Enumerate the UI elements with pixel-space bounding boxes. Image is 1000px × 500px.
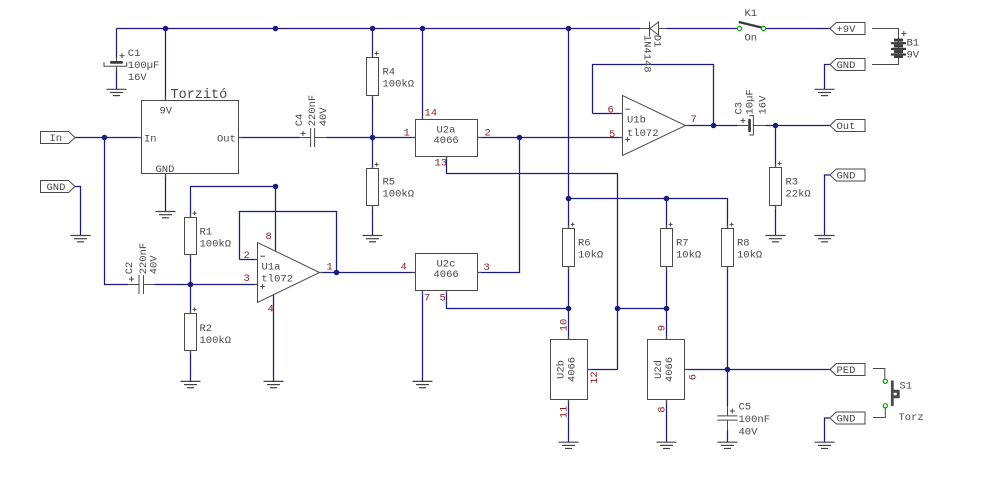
svg-text:7: 7 <box>424 292 430 304</box>
capacitor C1 <box>104 48 159 84</box>
wire: R2 bottom to ground <box>190 351 192 382</box>
svg-text:10: 10 <box>559 319 571 332</box>
wire: U2d pin 9 <box>666 309 668 340</box>
svg-text:14: 14 <box>425 108 438 120</box>
svg-text:40V: 40V <box>739 426 759 438</box>
ground (GND bottom right) <box>815 442 835 448</box>
svg-text:U1b: U1b <box>627 115 646 127</box>
connector GND near Out <box>830 169 865 182</box>
svg-text:4: 4 <box>401 262 407 274</box>
svg-text:U1a: U1a <box>262 262 281 274</box>
wire: U2a pin 2 to U1b pin 5 <box>478 137 623 139</box>
resistor R4 <box>367 51 415 95</box>
resistor R8 <box>722 222 763 266</box>
wire: C1 branch down <box>116 29 118 59</box>
wire: U2a pin 13 control <box>447 157 618 370</box>
connector GND left <box>41 181 76 194</box>
capacitor C4 <box>294 95 330 147</box>
junction node: In branch <box>102 135 108 141</box>
analog switch U2c <box>416 254 478 291</box>
svg-text:100nF: 100nF <box>739 414 771 426</box>
wire: C5 top <box>727 370 729 407</box>
op-amp U1a <box>258 243 320 303</box>
svg-text:9V: 9V <box>160 106 173 118</box>
wire: C1 to ground <box>116 68 118 89</box>
svg-text:B1: B1 <box>907 38 920 50</box>
svg-text:40V: 40V <box>148 255 160 275</box>
svg-text:GND: GND <box>47 182 66 194</box>
svg-text:R2: R2 <box>200 323 213 335</box>
wire: C2 node to U1a pin 3 <box>155 284 258 286</box>
wire: Out node down to R3 <box>775 126 777 168</box>
svg-text:R6: R6 <box>578 238 591 250</box>
ground (R2) <box>181 381 201 387</box>
svg-text:3: 3 <box>244 273 250 285</box>
svg-text:6: 6 <box>687 374 699 380</box>
analog switch U2b <box>551 340 588 400</box>
svg-text:R3: R3 <box>786 177 799 189</box>
resistor R6 <box>563 222 604 266</box>
wire: R6 R7 R8 top bus <box>569 199 728 229</box>
junction node: R6 bottom / U2b pin10 <box>566 306 572 312</box>
svg-text:16V: 16V <box>128 72 148 84</box>
svg-text:5: 5 <box>609 129 615 141</box>
wire: R5 bottom to ground <box>372 206 374 236</box>
junction node: R1 / 9V <box>273 184 279 190</box>
resistor R7 <box>661 222 702 266</box>
wire: U2b pin 12 <box>588 369 618 371</box>
wire: R7 bottom <box>666 267 668 309</box>
svg-text:tl072: tl072 <box>262 273 294 285</box>
ground (U1a pin 4) <box>264 381 284 387</box>
svg-text:Out: Out <box>837 121 856 133</box>
junction node: R7 top <box>664 196 670 202</box>
svg-text:GND: GND <box>837 170 856 182</box>
svg-text:10kΩ: 10kΩ <box>676 250 701 262</box>
connector PED <box>830 364 865 377</box>
svg-text:100µF: 100µF <box>128 60 160 72</box>
svg-text:4066: 4066 <box>567 357 579 382</box>
svg-text:13: 13 <box>435 157 448 169</box>
svg-text:100kΩ: 100kΩ <box>200 238 232 250</box>
svg-text:4066: 4066 <box>434 269 459 281</box>
capacitor C2 <box>124 243 161 294</box>
ground (module GND pin) <box>156 212 176 218</box>
wire: C4 to node and U2a pin1 <box>326 137 415 139</box>
svg-text:5: 5 <box>440 292 446 304</box>
svg-text:K1: K1 <box>745 8 758 20</box>
resistor R5 <box>367 162 415 205</box>
wire: U2c pin 7 to ground <box>422 291 424 382</box>
svg-text:PED: PED <box>837 365 856 377</box>
svg-text:Torz: Torz <box>899 412 924 424</box>
junction node: R4 R5 C4 U2a pin1 <box>370 135 376 141</box>
svg-text:2: 2 <box>485 128 491 140</box>
svg-text:C5: C5 <box>739 401 752 413</box>
svg-text:11: 11 <box>559 406 571 419</box>
svg-text:1: 1 <box>327 261 333 273</box>
wire: U1a output to U2c pin 4 <box>337 272 416 274</box>
wire: R6 bottom <box>568 267 570 309</box>
svg-text:GND: GND <box>837 60 856 72</box>
svg-text:Out: Out <box>217 133 236 145</box>
svg-text:R8: R8 <box>737 238 750 250</box>
wire: U1a output <box>320 272 337 274</box>
connector GND near battery <box>830 59 865 72</box>
junction node: U1a output <box>334 270 340 276</box>
analog switch U2d <box>648 340 685 400</box>
ground (C5) <box>718 442 738 448</box>
svg-text:3: 3 <box>484 262 490 274</box>
svg-text:16V: 16V <box>757 95 769 115</box>
wire: node down to R2 <box>190 285 192 314</box>
svg-text:100kΩ: 100kΩ <box>383 188 415 200</box>
wire: U1b output to C3 <box>686 125 738 127</box>
junction node: control rail / R6 bus <box>566 196 572 202</box>
wire: 9V pin of module <box>165 29 167 101</box>
ground (GND near battery) <box>815 89 835 95</box>
wire: C5 bottom to ground <box>727 431 729 443</box>
wire: U2c pin 3 up to audio line <box>478 138 520 273</box>
svg-text:R5: R5 <box>383 177 396 189</box>
battery B1 <box>872 29 920 65</box>
ground (U2c pin 7) <box>413 381 433 387</box>
wire: R7 top <box>666 199 668 229</box>
ground (GND near Out) <box>815 236 835 242</box>
junction node: rail / U2a pin14 <box>420 26 426 32</box>
svg-text:+9V: +9V <box>837 24 857 36</box>
wire: U1a pin 8 supply <box>275 187 277 252</box>
svg-text:8: 8 <box>657 406 669 412</box>
wire: C3 to Out connector <box>766 125 830 127</box>
wire: R5 top <box>372 138 374 169</box>
resistor R1 <box>185 211 232 254</box>
svg-text:7: 7 <box>691 114 697 126</box>
wire: In connector to module <box>75 137 142 139</box>
connector +9V <box>830 23 865 36</box>
ground (C1) <box>107 89 127 95</box>
svg-text:6: 6 <box>608 104 614 116</box>
svg-text:4066: 4066 <box>664 357 676 382</box>
wire: GND connector bottom right to ground <box>825 418 830 442</box>
wire: pin13 node to U2d node <box>618 308 667 310</box>
wire: 9V rail to R1 top <box>191 187 276 218</box>
wire: In node down to C2 <box>105 138 129 285</box>
svg-text:4066: 4066 <box>434 135 459 147</box>
wire: +9V top rail left section <box>117 28 641 30</box>
wire: U2c pin 5 to R6 node <box>447 291 569 309</box>
capacitor C5 <box>717 401 770 438</box>
module Torzito <box>142 88 239 176</box>
wire: R4 bottom to node <box>372 96 374 138</box>
junction node: pin13 line / U2b pin12 <box>615 306 621 312</box>
wire: U2b pin 10 <box>568 309 570 340</box>
ground (R3) <box>766 236 786 242</box>
wire: top rail from switch to +9V connector <box>766 28 830 30</box>
junction node: C2 R1 R2 U1a pin3 <box>188 282 194 288</box>
junction node: rail / control rail <box>566 26 572 32</box>
op-amp U1b <box>623 96 686 156</box>
connector GND bottom right <box>830 412 865 425</box>
svg-text:22kΩ: 22kΩ <box>786 188 811 200</box>
wire: GND connector left drop <box>75 187 81 236</box>
wire: U1a feedback loop <box>240 212 337 273</box>
wire: GND connector near battery to ground <box>825 65 830 90</box>
svg-text:100kΩ: 100kΩ <box>383 78 415 90</box>
wire: U2b pin 11 to ground <box>568 400 570 443</box>
svg-text:1N4148: 1N4148 <box>641 35 653 73</box>
pushbutton S1 <box>873 369 924 425</box>
ground (U2d pin 8) <box>657 442 677 448</box>
svg-text:R4: R4 <box>383 67 396 79</box>
junction node: rail / R4 <box>370 26 376 32</box>
svg-text:GND: GND <box>837 413 856 425</box>
connector Out <box>830 120 865 133</box>
analog switch U2a <box>416 120 478 157</box>
wire: U2d pin 6 to PED connector <box>685 369 830 371</box>
wire: module GND pin to ground <box>165 174 167 212</box>
junction node: rail / 9V module pin <box>163 26 169 32</box>
svg-text:10kΩ: 10kΩ <box>578 250 603 262</box>
svg-text:10kΩ: 10kΩ <box>737 250 762 262</box>
wire: U1a pin 4 to ground <box>273 295 275 382</box>
svg-text:C1: C1 <box>128 48 141 60</box>
junction node: U1b output feedback <box>711 123 717 129</box>
ground (GND left connector) <box>71 236 91 242</box>
wire: R8 bottom <box>727 267 729 370</box>
switch K1 <box>737 8 765 45</box>
resistor R3 <box>770 161 811 205</box>
svg-text:4: 4 <box>268 304 274 316</box>
svg-text:9: 9 <box>657 325 669 331</box>
svg-text:C2: C2 <box>124 262 136 275</box>
ground (U2b pin 11) <box>559 442 579 448</box>
svg-text:C4: C4 <box>294 114 306 127</box>
svg-text:9V: 9V <box>907 50 920 62</box>
svg-text:10µF: 10µF <box>745 89 757 114</box>
wire: U1a pin 2 stub <box>240 259 258 261</box>
wire: U2d pin 8 to ground <box>666 400 668 443</box>
svg-text:40V: 40V <box>318 107 330 127</box>
junction node: U2d pin6 R8 C5 PED <box>725 367 731 373</box>
svg-text:On: On <box>745 33 758 45</box>
wire: R4 top <box>372 29 374 58</box>
connector In <box>41 132 76 145</box>
diode D1 <box>640 22 667 73</box>
svg-text:In: In <box>144 133 157 145</box>
ground (R5) <box>363 236 383 242</box>
wire: U1b feedback loop <box>593 65 714 126</box>
svg-text:In: In <box>50 133 63 145</box>
wire: R3 bottom to ground <box>775 206 777 236</box>
resistor R2 <box>185 307 232 350</box>
svg-text:12: 12 <box>589 371 601 384</box>
svg-text:R7: R7 <box>676 238 689 250</box>
svg-text:tl072: tl072 <box>627 128 659 140</box>
svg-text:8: 8 <box>266 231 272 243</box>
wire: R1 bottom to C2 node <box>190 255 192 285</box>
svg-text:1: 1 <box>404 128 410 140</box>
capacitor C3 <box>734 89 770 135</box>
wire: GND connector near Out to ground <box>825 175 830 235</box>
wire: top rail between diode and switch <box>667 28 738 30</box>
junction node: rail / U1a pin8 <box>273 26 279 32</box>
pin stubs (component-colored lead ends) <box>138 54 776 403</box>
wire: module Out to C4 <box>239 137 300 139</box>
svg-text:Torzitó: Torzitó <box>171 88 228 103</box>
wire: U2a pin 14 supply <box>422 29 424 120</box>
junction node: C3 Out R3 <box>773 123 779 129</box>
junction node: R7 / U2d pin9 <box>664 306 670 312</box>
svg-text:100kΩ: 100kΩ <box>200 335 232 347</box>
svg-text:R1: R1 <box>200 227 213 239</box>
svg-text:S1: S1 <box>900 381 913 393</box>
junction node: U2a pin2 / U2c pin3 <box>517 135 523 141</box>
svg-text:2: 2 <box>244 250 250 262</box>
wire: control rail x=568.5 from +9V down to R6 <box>568 29 570 229</box>
wire: U1b pin 6 stub <box>593 113 623 115</box>
